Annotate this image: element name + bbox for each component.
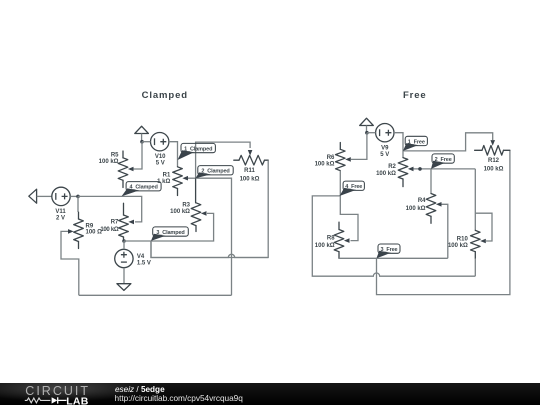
potentiometer R3 xyxy=(191,203,201,226)
wire node1 to R12 wiper xyxy=(403,133,493,151)
wire bottom rail xyxy=(79,294,232,296)
svg-text:R3: R3 xyxy=(182,203,190,209)
svg-text:R11: R11 xyxy=(244,168,255,174)
svg-text:1_Clamped: 1_Clamped xyxy=(184,146,212,152)
svg-text:100 kΩ: 100 kΩ xyxy=(315,243,335,249)
wire node3 lower with hop xyxy=(151,241,268,258)
R1 wiper arrow xyxy=(182,176,188,181)
wire 2free right down xyxy=(431,169,475,231)
footer bar xyxy=(0,383,540,405)
wire V9dot down to R6 wiper xyxy=(351,133,367,160)
potentiometer R8 xyxy=(334,230,344,252)
R5 wiper arrow xyxy=(128,167,134,172)
node flag 2_Clamped xyxy=(196,172,211,178)
potentiometer R6 xyxy=(336,149,346,170)
svg-text:LAB: LAB xyxy=(66,395,89,405)
wire node4 to R7 wiper xyxy=(78,196,142,222)
svg-text:5 V: 5 V xyxy=(380,152,389,158)
wire V10 right to R1 top xyxy=(169,142,178,167)
R4 wiper arrow xyxy=(436,202,442,207)
node flag 4_Free xyxy=(339,188,356,196)
terminal (left) xyxy=(29,189,37,203)
svg-text:2_Clamped: 2_Clamped xyxy=(201,169,229,175)
svg-text:Free: Free xyxy=(403,90,427,101)
R6 wiper arrow xyxy=(345,157,351,162)
potentiometer R10 xyxy=(471,230,481,251)
svg-text:1 kΩ: 1 kΩ xyxy=(157,179,170,185)
R2 wiper arrow xyxy=(408,167,414,172)
wire R6 bottom to 4_Free xyxy=(339,171,341,196)
wire node3free down and bottom xyxy=(377,150,510,294)
svg-text:100 kΩ: 100 kΩ xyxy=(100,227,119,233)
svg-text:R8: R8 xyxy=(327,236,335,242)
R7 wiper arrow xyxy=(128,220,134,225)
voltage source V4 xyxy=(115,249,133,267)
svg-text:1.5 V: 1.5 V xyxy=(137,260,151,266)
CircuitLab logo xyxy=(0,383,110,405)
wire 4_Free to R8 wiper xyxy=(340,196,358,241)
wire 4_Free left loop xyxy=(312,196,475,276)
svg-text:R6: R6 xyxy=(327,155,335,161)
svg-text:2 V: 2 V xyxy=(56,216,65,222)
svg-text:100 kΩ: 100 kΩ xyxy=(170,209,190,215)
svg-text:Clamped: Clamped xyxy=(142,90,188,101)
svg-text:3_Clamped: 3_Clamped xyxy=(156,230,184,236)
wire V11 to node dot xyxy=(70,195,78,197)
wire node3 horizontal xyxy=(124,213,214,241)
svg-text:100 kΩ: 100 kΩ xyxy=(406,206,426,212)
R8 wiper arrow xyxy=(344,238,350,243)
potentiometer R4 xyxy=(426,194,436,217)
node dot at V11 right xyxy=(76,195,80,199)
svg-text:R1: R1 xyxy=(163,173,171,179)
potentiometer R12 xyxy=(482,146,504,156)
node flag 3_Free xyxy=(377,251,392,258)
svg-text:100 kΩ: 100 kΩ xyxy=(376,171,396,177)
junction dot node2free xyxy=(418,167,422,171)
svg-text:100 kΩ: 100 kΩ xyxy=(315,161,335,167)
wire node3free horizontal xyxy=(339,257,448,259)
R11 wiper arrow xyxy=(248,150,253,156)
potentiometer R7 xyxy=(119,215,129,237)
svg-text:4_Clamped: 4_Clamped xyxy=(129,185,157,191)
terminal (top, right circuit) xyxy=(360,118,374,125)
wire V9 right to R2 top xyxy=(394,133,403,158)
svg-text:V10: V10 xyxy=(155,154,166,160)
potentiometer R1 xyxy=(173,167,183,189)
node flag 1_Clamped xyxy=(178,150,195,160)
node flag 1_Free xyxy=(403,143,418,151)
svg-text:R9: R9 xyxy=(86,223,94,229)
node dot at V9 left xyxy=(365,131,369,135)
svg-text:5 V: 5 V xyxy=(156,160,165,166)
svg-text:R4: R4 xyxy=(418,198,426,204)
svg-text:100 kΩ: 100 kΩ xyxy=(240,176,260,182)
R12 wiper arrow xyxy=(490,140,495,146)
potentiometer R11 xyxy=(239,155,265,165)
wire V10 left lead xyxy=(142,141,151,143)
potentiometer R2 xyxy=(398,158,408,179)
potentiometer R9 xyxy=(74,219,84,242)
wire node2 vertical to R11 wiper xyxy=(196,142,251,178)
potentiometer R5 xyxy=(118,158,128,181)
R9 wiper arrow xyxy=(68,229,74,234)
node dot at V10 left xyxy=(140,140,144,144)
node dot at R7 bottom xyxy=(122,239,126,243)
R10 wiper arrow xyxy=(480,239,486,244)
svg-text:R2: R2 xyxy=(388,164,396,170)
svg-text:3_Free: 3_Free xyxy=(380,247,397,253)
node flag 4_Clamped xyxy=(122,188,140,196)
node flag 2_Free xyxy=(431,161,445,169)
voltage source V10 xyxy=(151,133,169,151)
svg-text:R7: R7 xyxy=(111,220,119,226)
voltage source V9 xyxy=(376,124,394,142)
R3 wiper arrow xyxy=(201,211,207,216)
svg-text:V11: V11 xyxy=(55,209,66,215)
wire V9 left lead xyxy=(367,132,376,134)
node flag 3_Clamped xyxy=(151,234,166,241)
wire R11 right down to node3 loop xyxy=(151,160,268,257)
svg-text:V9: V9 xyxy=(381,146,389,152)
svg-text:V4: V4 xyxy=(137,254,145,260)
svg-text:R10: R10 xyxy=(457,237,469,243)
svg-text:R5: R5 xyxy=(111,153,119,159)
svg-text:100 kΩ: 100 kΩ xyxy=(99,159,119,165)
svg-text:R12: R12 xyxy=(488,158,500,164)
wire node2 to bottom rail xyxy=(196,178,232,295)
voltage source V11 xyxy=(52,187,70,205)
ground xyxy=(117,284,131,291)
svg-text:4_Free: 4_Free xyxy=(345,184,362,190)
svg-text:1_Free: 1_Free xyxy=(408,139,425,145)
terminal (top, left circuit) xyxy=(135,126,149,133)
svg-text:100 kΩ: 100 kΩ xyxy=(484,166,504,172)
svg-text:2_Free: 2_Free xyxy=(435,157,452,163)
svg-text:100 kΩ: 100 kΩ xyxy=(448,243,468,249)
